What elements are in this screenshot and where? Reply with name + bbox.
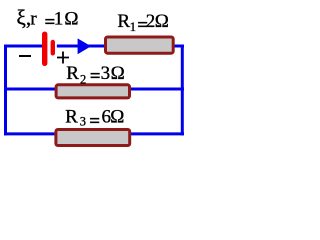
svg-text:=: = bbox=[90, 66, 101, 87]
resistor R1 body bbox=[106, 37, 174, 53]
plus terminal sign bbox=[57, 52, 69, 64]
resistor R2 body bbox=[56, 85, 129, 98]
wire: bottom horizontal branch bbox=[4, 132, 184, 135]
svg-text:R: R bbox=[66, 63, 79, 84]
svg-text:Ω: Ω bbox=[155, 11, 169, 32]
svg-text:Ω: Ω bbox=[111, 63, 125, 84]
svg-text:=: = bbox=[89, 111, 100, 132]
label: EMF source value bbox=[17, 6, 79, 34]
resistor R3 body bbox=[56, 130, 130, 146]
wire: middle horizontal branch bbox=[4, 88, 184, 91]
wire: top-left segment to battery bbox=[4, 45, 43, 48]
svg-text:1: 1 bbox=[54, 9, 64, 30]
svg-text:ξ,: ξ, bbox=[17, 6, 32, 30]
wire: right vertical bus bbox=[181, 45, 184, 136]
minus terminal sign bbox=[19, 55, 31, 57]
label: R3 value bbox=[65, 107, 124, 132]
wire: battery to R1 segment bbox=[57, 45, 105, 48]
svg-text:R: R bbox=[65, 107, 78, 128]
svg-text:R: R bbox=[117, 11, 130, 32]
wire: R1 to right bus segment bbox=[174, 45, 185, 48]
svg-text:3: 3 bbox=[80, 115, 86, 129]
label: R2 value bbox=[66, 63, 124, 87]
svg-text:1: 1 bbox=[130, 20, 136, 34]
svg-text:3: 3 bbox=[101, 63, 111, 84]
current arrow bbox=[78, 38, 91, 54]
wire: left vertical bus bbox=[4, 45, 7, 136]
svg-text:Ω: Ω bbox=[64, 9, 78, 30]
svg-text:Ω: Ω bbox=[110, 107, 124, 128]
svg-text:r: r bbox=[30, 9, 37, 30]
label: R1 value bbox=[117, 11, 168, 36]
battery short plate bbox=[51, 40, 55, 56]
svg-text:2: 2 bbox=[80, 73, 86, 87]
battery long plate bbox=[42, 32, 47, 67]
